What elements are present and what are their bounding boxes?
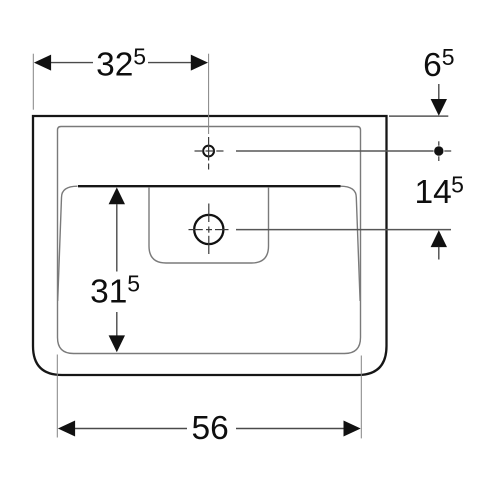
dimension 32.5: dimension line bbox=[50, 62, 93, 64]
drain hole bbox=[194, 215, 223, 244]
inner rim outline bbox=[58, 127, 361, 354]
svg-text:31: 31 bbox=[90, 273, 127, 310]
svg-text:56: 56 bbox=[192, 410, 229, 447]
dimension 32.5: arrowheads bbox=[34, 55, 51, 71]
tap hole crosshair bbox=[195, 137, 224, 170]
svg-text:5: 5 bbox=[451, 171, 464, 197]
tap level dot marker bbox=[434, 146, 443, 155]
dimension 14.5: arrow bbox=[431, 230, 447, 247]
basin floor tub bbox=[149, 187, 269, 263]
svg-text:5: 5 bbox=[127, 270, 140, 296]
svg-text:6: 6 bbox=[423, 47, 442, 84]
dimension 31.5: arrows and line bbox=[109, 187, 125, 204]
svg-text:14: 14 bbox=[415, 174, 452, 211]
dimension 6.5: arrow bbox=[438, 84, 440, 101]
dimension 56: extension lines bbox=[56, 355, 58, 438]
dimension 56: dimension line bbox=[74, 428, 187, 430]
top edge extension line (right) bbox=[389, 115, 448, 117]
tap level reference line bbox=[236, 150, 434, 152]
basin front edge (thick) bbox=[78, 185, 341, 187]
dimension 32.5: extension lines bbox=[32, 54, 34, 110]
svg-text:5: 5 bbox=[133, 44, 146, 70]
dimension 56: arrowheads bbox=[58, 421, 75, 437]
drain level reference line bbox=[236, 229, 451, 231]
basin bowl outline bbox=[58, 186, 360, 301]
tap hole bbox=[203, 146, 214, 157]
svg-text:5: 5 bbox=[442, 44, 455, 70]
outer washbasin outline bbox=[33, 116, 387, 375]
drain crosshair bbox=[189, 204, 229, 255]
svg-text:32: 32 bbox=[96, 47, 133, 84]
